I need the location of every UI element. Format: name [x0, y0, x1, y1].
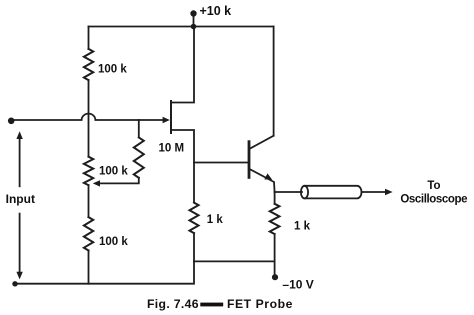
- wire left rail upper: [88, 27, 90, 49]
- wire collector riser: [273, 27, 275, 136]
- transistor Q1 FET channel: [170, 101, 172, 133]
- wire FET source lead: [171, 130, 194, 203]
- node dot top rail junction: [191, 24, 197, 30]
- arrowhead potentiometer wiper: [93, 180, 100, 186]
- wire left rail middle: [88, 80, 90, 157]
- wire input with hop over left rail: [11, 114, 163, 120]
- resistor R3 100k bottom: [84, 217, 93, 250]
- node dot input: [8, 118, 15, 125]
- svg-text:10 M: 10 M: [159, 142, 185, 154]
- node +10k supply pin: [193, 14, 195, 27]
- transistor Q2 base bar: [248, 142, 251, 178]
- svg-text:FET Probe: FET Probe: [227, 297, 293, 311]
- node dot input common: [12, 281, 17, 286]
- node dot -10V pin: [272, 274, 278, 280]
- svg-text:+10 k: +10 k: [200, 4, 232, 18]
- wire left rail lower: [88, 185, 90, 217]
- input arrow line lower: [19, 214, 21, 274]
- transistor Q2 collector lead: [250, 136, 274, 149]
- wire emitter to coax: [275, 191, 302, 193]
- svg-text:–10 V: –10 V: [282, 278, 313, 292]
- svg-text:1 k: 1 k: [294, 221, 311, 233]
- wire left rail bottom: [88, 251, 90, 284]
- arrowhead emitter: [264, 173, 272, 179]
- coax cable body: [305, 186, 362, 199]
- wire bottom rail: [15, 261, 194, 283]
- svg-text:To: To: [427, 180, 440, 192]
- wire 10M bottom to wiper: [99, 178, 139, 184]
- svg-text:100 k: 100 k: [99, 236, 128, 248]
- resistor R5 1k source: [190, 203, 199, 234]
- input arrow line upper: [19, 139, 21, 187]
- wire 1k to -10V pin: [274, 234, 276, 277]
- resistor R6 1k emitter: [270, 204, 280, 234]
- arrowhead output: [385, 189, 393, 196]
- resistor R4 10M: [134, 137, 144, 177]
- coax cable left ellipse: [301, 186, 308, 199]
- caption bar: [200, 303, 223, 307]
- svg-text:Fig. 7.46: Fig. 7.46: [147, 297, 199, 311]
- wire emitter node down: [274, 192, 276, 204]
- wire 1k bottom: [193, 233, 195, 261]
- wire coax to arrow: [362, 191, 390, 193]
- wire top supply rail: [89, 26, 274, 28]
- node dot +10k pin: [190, 10, 196, 16]
- wire FET drain lead: [171, 27, 194, 103]
- wire mid rail: [194, 260, 275, 262]
- wire 10M branch drop: [138, 120, 140, 137]
- svg-text:1 k: 1 k: [207, 214, 224, 226]
- transistor Q2 emitter lead: [250, 169, 275, 192]
- svg-text:Input: Input: [6, 192, 35, 206]
- wire source to base: [194, 162, 249, 164]
- arrowhead input up: [16, 131, 22, 139]
- resistor R1 100k top: [84, 49, 93, 80]
- arrowhead input down: [16, 272, 22, 280]
- arrowhead FET gate: [163, 117, 170, 123]
- resistor R2 100k potentiometer: [84, 157, 93, 186]
- svg-text:100 k: 100 k: [98, 63, 127, 75]
- svg-text:Oscilloscope: Oscilloscope: [400, 194, 467, 206]
- svg-text:100 k: 100 k: [99, 166, 128, 178]
